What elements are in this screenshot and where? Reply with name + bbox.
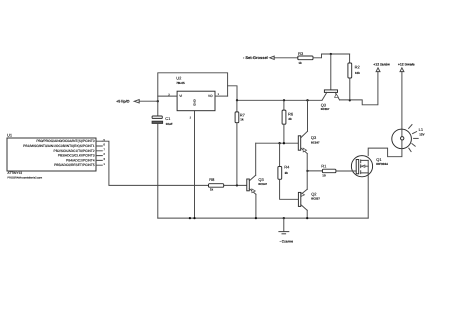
- svg-text:+5 lip/O: +5 lip/O: [116, 100, 130, 104]
- svg-text:Q3: Q3: [311, 135, 317, 140]
- wire U1 pin5 to R8: [102, 141, 208, 185]
- svg-text:10uF: 10uF: [166, 122, 173, 126]
- node R7/R8 junction: [236, 184, 238, 186]
- svg-text:1k: 1k: [240, 118, 244, 122]
- transistor Q3 BC547 (middle NPN): [298, 100, 320, 171]
- svg-text:BC557: BC557: [311, 197, 320, 201]
- svg-text:10k: 10k: [355, 71, 360, 75]
- port +12 zarow: [373, 62, 390, 71]
- capacitor C1: [152, 101, 173, 218]
- svg-text:R3: R3: [298, 51, 304, 56]
- node Q2 collector: [306, 217, 308, 219]
- svg-text:- Set-Grossel: - Set-Grossel: [243, 55, 268, 60]
- U1 pin numbers: [103, 138, 105, 166]
- svg-text:R8: R8: [209, 177, 215, 182]
- svg-text:2k: 2k: [288, 117, 292, 121]
- svg-text:78L05: 78L05: [176, 81, 185, 85]
- svg-text:R6: R6: [288, 112, 294, 117]
- svg-text:PB5/ADC0/RESET/PCINT5: PB5/ADC0/RESET/PCINT5: [54, 163, 95, 167]
- node Q3 left emitter: [255, 217, 257, 219]
- svg-text:PB1/MISO/INT0/AIN1/OC0B/INT0(R: PB1/MISO/INT0/AIN1/OC0B/INT0(RX)S/PCINT1: [23, 144, 95, 148]
- svg-text:L1: L1: [419, 127, 424, 132]
- svg-text:VI: VI: [179, 94, 182, 98]
- resistor R7: [235, 100, 246, 185]
- svg-text:PB4/ADC2/PCINT4: PB4/ADC2/PCINT4: [66, 158, 95, 162]
- transistor Q3 BC557 (top PNP): [321, 90, 340, 111]
- U1 pin names: [23, 139, 95, 167]
- svg-text:PB0/PROG/AIN0/OC0A/INT(S)/PCIN: PB0/PROG/AIN0/OC0A/INT(S)/PCINT0: [36, 139, 94, 143]
- resistor R8: [209, 177, 224, 191]
- port +5 lip/O: [116, 100, 158, 104]
- resistor R2: [348, 54, 361, 100]
- ground symbol: [279, 218, 293, 243]
- node R4 top: [278, 142, 280, 144]
- svg-text:R1: R1: [321, 163, 327, 168]
- svg-text:R2: R2: [355, 65, 361, 70]
- port - Set-Grossel: [243, 55, 298, 60]
- node rail/R6: [283, 99, 285, 101]
- svg-text:2k: 2k: [285, 171, 289, 175]
- node +5 / C1 / U2-VI: [157, 100, 159, 102]
- wire Q1 source to rail: [367, 173, 369, 218]
- transistor Q1 IRF9024 MOSFET: [351, 156, 388, 177]
- svg-text:U1: U1: [7, 133, 13, 138]
- svg-text:BC557: BC557: [321, 107, 330, 111]
- node rail/R7: [236, 99, 238, 101]
- transistor Q2 BC557 (PNP): [298, 171, 320, 218]
- node R6 bottom: [283, 142, 285, 144]
- svg-text:- Czarne: - Czarne: [280, 239, 293, 243]
- svg-text:BC547: BC547: [258, 182, 267, 186]
- base wire of middle Q3: [256, 142, 298, 144]
- svg-text:+12 żarów: +12 żarów: [373, 62, 390, 66]
- resistor R4: [278, 143, 298, 199]
- wire U2 out branch to +5 rail: [228, 86, 237, 101]
- svg-text:PB3/ADC3/CLKI/PCINT3: PB3/ADC3/CLKI/PCINT3: [58, 154, 95, 158]
- svg-text:10: 10: [322, 174, 326, 178]
- regulator U2 78L05: [176, 76, 215, 111]
- node mystery dot: [189, 217, 191, 219]
- U1 pin stubs: [96, 141, 102, 165]
- U2 GND pin wire: [194, 111, 196, 218]
- svg-text:R4: R4: [284, 165, 290, 170]
- transistor Q3 BC547 (left NPN): [247, 143, 268, 218]
- wire R8 to Q3 base: [224, 184, 247, 186]
- IC U1 ATTINY13: [7, 133, 96, 180]
- resistor R3: [298, 51, 313, 65]
- node R3/R2/Q3 base: [330, 53, 332, 55]
- svg-text:C1: C1: [165, 116, 171, 121]
- wire base drop: [330, 54, 332, 90]
- node R2 bottom / emitter wire: [349, 99, 351, 101]
- node ground stem: [283, 217, 285, 219]
- svg-text:U2: U2: [176, 76, 182, 81]
- wire U2 outer loop: [158, 73, 228, 101]
- wire R3 to R2/base node: [313, 54, 350, 58]
- node U2 GND: [193, 217, 195, 219]
- node R1/Q3/Q2: [306, 170, 308, 172]
- port +12 trwale: [398, 62, 415, 129]
- svg-text:1k: 1k: [210, 187, 214, 191]
- svg-text:PB2/SCK/ADC1/T0/PCINT2: PB2/SCK/ADC1/T0/PCINT2: [54, 149, 95, 153]
- bottom rail: [158, 217, 368, 219]
- svg-text:PROGRAM=oswietlenie2.asm: PROGRAM=oswietlenie2.asm: [7, 176, 42, 179]
- svg-text:IRF9024: IRF9024: [376, 162, 388, 166]
- U2 pin3 wire: [158, 95, 177, 97]
- svg-text:12V: 12V: [419, 133, 424, 137]
- lamp L1: [392, 125, 425, 152]
- +5 rail: [237, 99, 322, 101]
- svg-text:BC547: BC547: [311, 141, 320, 145]
- wire Q3 emitter to +12 zarow: [340, 72, 378, 105]
- U2 pin1 wire: [215, 95, 228, 97]
- svg-text:GND: GND: [192, 99, 196, 107]
- svg-text:VO: VO: [208, 94, 213, 98]
- resistor R1: [307, 163, 356, 177]
- svg-text:1k: 1k: [298, 61, 302, 65]
- node rail/Q3 collector: [306, 99, 308, 101]
- resistor R6: [282, 100, 294, 143]
- svg-text:+12 trwałe: +12 trwałe: [398, 62, 415, 66]
- svg-text:ATTINY13: ATTINY13: [7, 171, 22, 175]
- wire lamp to Q1 drain: [368, 148, 402, 157]
